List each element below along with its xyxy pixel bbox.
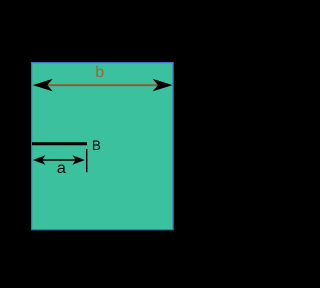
svg-text:a: a: [57, 160, 66, 177]
svg-text:b: b: [95, 64, 104, 81]
svg-text:B: B: [92, 138, 101, 153]
